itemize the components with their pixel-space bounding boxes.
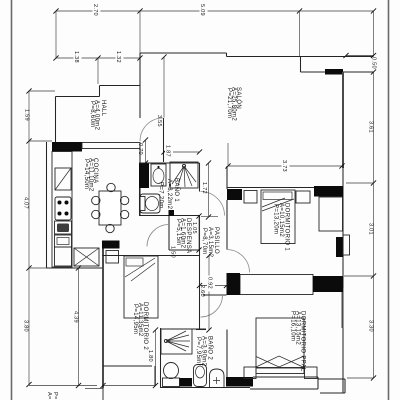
dim line 0.50 <box>346 55 374 57</box>
wall salon NE corner vertical <box>300 57 302 73</box>
wall kitchen south <box>47 267 104 269</box>
column black east corner2 <box>313 276 343 292</box>
chair bottom <box>106 224 114 232</box>
ext y378 <box>347 377 374 379</box>
column black hall south <box>52 142 82 152</box>
hob burner 3 <box>58 212 62 216</box>
tick top2 98 <box>95 55 100 60</box>
hob burner 1 <box>58 201 62 205</box>
tick left 141 <box>26 138 31 143</box>
tick right 72 <box>371 69 376 74</box>
dim 1.05 <box>198 216 200 250</box>
svg-text:P=7,20m: P=7,20m <box>158 182 164 209</box>
toilet tank <box>140 197 145 211</box>
wall top B <box>227 56 374 58</box>
wall SE step horiz <box>318 378 345 380</box>
svg-text:P=16,10m: P=16,10m <box>290 311 296 341</box>
wall east structural lower <box>342 288 344 328</box>
kitchen low cabinet <box>55 247 72 266</box>
wall pasillo west lower <box>199 295 201 330</box>
svg-text:HALL: HALL <box>100 100 106 117</box>
chair left1 <box>92 196 100 204</box>
wall bano1 west lower <box>139 188 141 216</box>
label 2.70 <box>93 3 101 17</box>
corner cabinet diagonal 2 <box>74 248 99 266</box>
corner cabinet diagonal 1 <box>74 248 99 266</box>
dim ext bottom left <box>85 388 103 390</box>
svg-text:P=5,15m: P=5,15m <box>175 219 181 246</box>
extension x299 <box>299 11 301 56</box>
wall dormppal south <box>253 376 318 378</box>
dim 3.55 <box>163 57 165 118</box>
svg-text:P=: P= <box>52 392 58 400</box>
bano2 shower <box>161 329 192 354</box>
dim line top2 <box>56 57 140 59</box>
column black top right wall <box>325 69 343 75</box>
dining table <box>99 191 121 225</box>
label 1.32 <box>116 50 124 64</box>
svg-text:5.09: 5.09 <box>199 4 205 16</box>
dorm2 nightstand <box>106 251 119 264</box>
extension x373 <box>373 11 375 56</box>
wall east middle <box>342 166 344 393</box>
wall kitchen west <box>46 142 48 268</box>
wall stub below x103 <box>102 388 104 400</box>
label 0.92 <box>207 276 215 292</box>
wall cocina east <box>139 148 141 216</box>
door arc bano1 <box>201 192 225 216</box>
label 1.87 <box>165 144 173 159</box>
washbasin bowl <box>153 169 164 184</box>
wall east (structural) <box>342 72 344 168</box>
bano2 washbasin pedestal <box>210 369 225 387</box>
door arc dormitorio1 <box>227 250 250 273</box>
dorm2 bed <box>124 256 158 318</box>
wall hall/salon divider <box>139 53 141 118</box>
svg-text:2.60: 2.60 <box>199 285 205 297</box>
dormppal bench left <box>244 367 256 379</box>
kitchen oven <box>55 221 72 234</box>
wall despensa west <box>168 216 170 250</box>
column black dormitorio1 NW <box>227 189 242 200</box>
tick top2 140 <box>137 55 142 60</box>
svg-text:P=8,60m: P=8,60m <box>89 101 95 128</box>
wall SE corner vertical <box>344 379 346 393</box>
dorm2 sheet fold 1 <box>125 258 155 277</box>
bano2 bidet <box>194 365 207 387</box>
dim line left <box>28 91 30 385</box>
svg-text:1.38: 1.38 <box>73 51 79 63</box>
wall pasillo east mid <box>226 200 228 250</box>
wall bano1 south <box>139 215 200 217</box>
svg-text:4.07: 4.07 <box>23 197 29 209</box>
wall bottom main <box>160 387 250 389</box>
svg-text:1,50: 1,50 <box>170 246 176 258</box>
wall despensa south <box>169 249 200 251</box>
oven inner <box>57 224 69 233</box>
svg-text:3.01: 3.01 <box>368 223 374 235</box>
drawer inner <box>57 238 69 245</box>
shower head <box>182 164 185 167</box>
dim 0.92 <box>200 285 227 287</box>
kitchen sink/drainer square <box>55 168 71 190</box>
ext 3.73 left <box>227 143 229 166</box>
svg-text:3.30: 3.30 <box>368 320 374 332</box>
washbasin cross <box>213 377 220 384</box>
dorm1 nightstand left <box>244 191 257 204</box>
wall bano2 north <box>160 328 206 330</box>
door arc cocina-despensa <box>147 225 169 247</box>
tick right 183 <box>371 180 376 185</box>
dormppal bed X left <box>256 356 303 367</box>
column black junction pasillo <box>227 273 241 295</box>
extension x140 <box>139 11 141 53</box>
wall SE bottom <box>320 392 345 394</box>
kitchen drawer unit <box>55 235 72 247</box>
column black east window jamb <box>336 237 343 257</box>
column black dormitorio1 NE <box>314 186 343 197</box>
svg-text:P=21,70m: P=21,70m <box>226 88 232 118</box>
label 5.09 <box>200 3 208 17</box>
dorm1 bed <box>261 190 295 244</box>
door arc hall <box>140 118 163 141</box>
kitchen counter <box>52 152 72 268</box>
dim line bottom <box>29 385 97 387</box>
bano1 toilet <box>140 194 160 213</box>
dormppal bench right <box>305 367 318 379</box>
tick top 299.5 <box>297 8 302 13</box>
wall bano2 west <box>160 328 162 388</box>
tick right 378 <box>371 375 376 380</box>
dim line bottom2 <box>103 385 155 387</box>
wall pasillo east upper <box>226 166 228 189</box>
wall hall step vertical <box>99 86 101 97</box>
svg-text:BAÑO 2: BAÑO 2 <box>207 336 214 360</box>
dim 1.80 <box>155 330 157 386</box>
label 1.38 <box>74 50 82 64</box>
svg-text:4.39: 4.39 <box>73 311 79 323</box>
bano1 washbasin unit <box>151 164 166 186</box>
dim 0.70 <box>145 140 147 163</box>
extension y91 <box>29 90 55 92</box>
column black bano2 <box>179 378 192 387</box>
page border right <box>388 0 390 400</box>
chair top <box>107 183 115 191</box>
dim line top <box>56 10 374 12</box>
tick top 373.5 <box>371 8 376 13</box>
column black bano1 west <box>139 163 149 188</box>
svg-text:3.61: 3.61 <box>368 121 374 133</box>
svg-text:3.73: 3.73 <box>281 160 287 172</box>
small black despensa corner <box>169 210 175 216</box>
ext y276 <box>344 275 374 277</box>
toilet bowl inner <box>146 197 159 211</box>
wall hall top <box>100 85 141 87</box>
svg-text:1.72: 1.72 <box>201 182 207 194</box>
dim 2.60 <box>208 256 210 331</box>
dorm1 sheet fold 1 <box>262 199 294 211</box>
dorm1 closet <box>319 197 343 231</box>
wall vestibule south <box>196 329 206 331</box>
bano2 toilet bowl <box>164 363 179 379</box>
chair right2 <box>120 210 128 218</box>
dim 3.73 <box>228 165 342 167</box>
wall top A <box>140 52 227 54</box>
svg-text:1.80: 1.80 <box>147 350 153 362</box>
svg-text:P=14,95m: P=14,95m <box>132 304 138 334</box>
tick top 140 <box>137 8 142 13</box>
tick left 384.5 <box>26 382 31 387</box>
label 3.73 <box>282 159 290 174</box>
svg-text:0.70: 0.70 <box>137 143 143 155</box>
chair right1 <box>120 196 128 204</box>
wall pasillo west upper <box>199 163 201 192</box>
shower spray <box>172 166 196 187</box>
wall SE step vertical <box>317 377 319 389</box>
svg-text:0.92: 0.92 <box>207 277 213 289</box>
wall notch east <box>154 366 156 386</box>
svg-text:P=14,50m: P=14,50m <box>83 159 89 189</box>
svg-text:P=13,20m: P=13,20m <box>273 204 279 234</box>
extension y141 <box>29 140 52 142</box>
column black dormitorio2 NW <box>102 241 120 249</box>
washbasin tap <box>157 166 159 168</box>
svg-text:P=7,95m: P=7,95m <box>195 337 201 364</box>
svg-text:0.50: 0.50 <box>371 57 377 69</box>
svg-text:A=3,22m2: A=3,22m2 <box>166 179 172 210</box>
tick top2 56 <box>53 55 58 60</box>
wall pasillo bottom <box>203 294 227 296</box>
svg-text:P=8,70m: P=8,70m <box>201 228 207 255</box>
tick left 91 <box>26 88 31 93</box>
extension x98 <box>97 58 99 84</box>
svg-text:A=: A= <box>46 392 52 400</box>
hob burner 2 <box>65 201 69 205</box>
kitchen drainer diagonal <box>55 168 71 190</box>
svg-text:3.80: 3.80 <box>23 320 29 332</box>
tick right 276 <box>371 273 376 278</box>
wall dormitorio2 north <box>102 255 200 257</box>
corner cabinet X <box>74 248 99 266</box>
dim 4.39 <box>78 268 80 386</box>
bano2 toilet tank <box>163 378 180 387</box>
wall dorm2 south notch <box>103 365 152 367</box>
tick top 56 <box>53 8 58 13</box>
closet band dormitorio1/ppal <box>240 275 313 295</box>
dim 1.72 foot <box>201 216 218 218</box>
bano2 shower head <box>164 339 167 342</box>
dorm2 sheet fold 2 <box>131 263 155 281</box>
wall top step <box>226 53 228 57</box>
svg-text:1.32: 1.32 <box>115 51 121 63</box>
wall stub hall door <box>163 118 165 162</box>
door arc vestibule <box>201 295 223 317</box>
wall bano1 north <box>139 162 200 164</box>
dormppal bed <box>256 318 304 368</box>
dim 1.72 <box>208 163 210 217</box>
window sill east <box>343 235 350 255</box>
svg-text:1.87: 1.87 <box>165 145 171 157</box>
ext y183 <box>346 182 374 184</box>
dim right column <box>373 72 375 378</box>
bidet inner <box>196 366 205 378</box>
extension x56 <box>55 11 57 58</box>
wall dormitorio2 west (structural) <box>102 241 104 388</box>
dorm1 nightstand right <box>296 191 310 203</box>
dorm2 pillow <box>126 258 143 266</box>
extension y268 <box>29 267 47 269</box>
tick left 268 <box>26 265 31 270</box>
svg-text:2.70: 2.70 <box>92 4 98 16</box>
wall hall west <box>55 97 57 143</box>
kitchen hob <box>55 197 71 220</box>
svg-text:3.55: 3.55 <box>156 115 162 127</box>
wall dormitorio1 north <box>227 187 343 189</box>
dorm1 sheet fold 2 <box>262 198 285 207</box>
column black bottom center <box>226 377 253 387</box>
svg-text:BAÑO 1: BAÑO 1 <box>173 178 180 202</box>
wall dormppal west <box>226 330 228 378</box>
dorm1 pillow <box>263 192 292 200</box>
wall bottom lower <box>250 388 318 390</box>
threshold hall-kitchen <box>82 143 140 149</box>
wall top C <box>301 71 375 73</box>
bano1 shower <box>170 162 198 188</box>
hob burner 4 <box>65 212 69 216</box>
dormppal footboard <box>256 368 304 374</box>
chair left2 <box>92 210 100 218</box>
wall hall north <box>56 96 100 98</box>
wall pasillo west mid <box>199 216 201 296</box>
bano2 shower spray <box>166 331 190 351</box>
dim 1.87 <box>164 151 200 153</box>
svg-text:1.59: 1.59 <box>24 109 30 121</box>
page border left <box>11 0 13 400</box>
